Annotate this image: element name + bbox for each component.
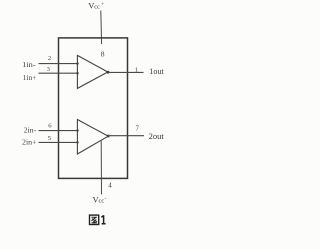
wire pin 6 inverting input bbox=[39, 130, 78, 132]
wire pin 2 inverting input bbox=[39, 63, 78, 65]
junction dot pin 5 at U1B input bbox=[76, 141, 78, 143]
svg-text:1in+: 1in+ bbox=[23, 74, 36, 82]
svg-text:2: 2 bbox=[48, 55, 51, 62]
junction dot pin 3 at U1A input bbox=[76, 72, 78, 74]
wire pin 8 Vcc+ lead bbox=[100, 11, 103, 45]
op-amp U1A bbox=[77, 55, 107, 88]
svg-text:4: 4 bbox=[108, 181, 112, 189]
wire pin 4 Vcc- lead bbox=[100, 141, 102, 194]
svg-text:cc: cc bbox=[94, 3, 100, 10]
svg-text:+: + bbox=[101, 2, 104, 8]
svg-text:2in-: 2in- bbox=[24, 127, 37, 135]
svg-text:cc: cc bbox=[99, 198, 105, 205]
svg-text:1out: 1out bbox=[149, 67, 164, 76]
svg-text:2in+: 2in+ bbox=[22, 139, 37, 147]
figure caption numeral 1 bbox=[101, 215, 105, 224]
junction dot at U1B output apex bbox=[107, 135, 110, 138]
svg-text:-: - bbox=[105, 196, 107, 202]
figure caption 图 1 bbox=[90, 215, 99, 224]
junction dot at U1A output apex bbox=[107, 71, 110, 74]
svg-text:1in-: 1in- bbox=[22, 61, 36, 69]
junction dot pin 6 at U1B input bbox=[76, 129, 78, 131]
wire pin 1 output bbox=[108, 71, 144, 73]
IC package U1 outline bbox=[59, 38, 128, 179]
svg-text:1: 1 bbox=[135, 66, 138, 73]
svg-text:8: 8 bbox=[101, 49, 105, 58]
power net Vcc+ label bbox=[88, 0, 104, 10]
op-amp U1B bbox=[77, 120, 108, 155]
wire pin 7 output bbox=[108, 135, 144, 137]
wire pin 5 non-inverting input bbox=[39, 141, 78, 143]
svg-text:7: 7 bbox=[136, 125, 140, 132]
wire pin 3 non-inverting input bbox=[39, 72, 78, 74]
svg-text:2out: 2out bbox=[149, 132, 165, 141]
junction dot pin 2 at U1A input bbox=[76, 62, 78, 64]
power net Vcc- label bbox=[93, 195, 107, 205]
